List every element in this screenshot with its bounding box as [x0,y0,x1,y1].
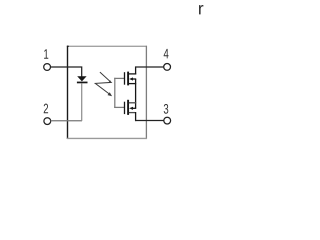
package outline box top edge [67,45,147,47]
pin label 3 [164,104,169,114]
pin 4 terminal [164,64,171,71]
gate lead Q1 [114,77,124,79]
pin 1 terminal [44,64,51,71]
MOSFET Q2 drain stub [129,112,135,114]
pin label 2 [44,104,48,114]
wire pin1 to LED anode [50,67,81,77]
MOSFET Q1 channel bar [127,72,129,86]
pin 2 terminal [44,118,51,125]
MOSFET Q1 gate bar [124,72,126,85]
Q1 drain riser to pin4 wire [135,67,137,75]
MOSFET Q2 body arrow [129,107,133,110]
Q2 drain riser to pin3 wire [135,112,137,121]
gate lead Q2 [114,106,124,108]
stray text fragment r (clipped at image edge) [199,5,203,14]
wire LED cathode down to pin2 wire [81,83,83,121]
zigzag end arrowhead [108,92,113,96]
LED cathode bar [77,82,88,84]
package outline box right edge [145,46,147,139]
MOSFET Q1 body arrow [129,77,133,80]
pin label 1 [44,49,48,58]
gate bus vertical [114,78,116,108]
package outline box left edge [67,46,69,139]
light emission zigzag arrow [95,72,111,95]
pin 3 terminal [164,117,171,124]
package outline box bottom edge [67,137,147,139]
wire Q1 drain to pin4 [135,66,164,68]
wire Q2 drain to pin3 [135,120,164,122]
MOSFET Q1 body lead [132,78,136,80]
zigzag mid arrowhead [109,80,112,83]
common source/body vertical [135,79,137,108]
MOSFET Q1 drain stub [129,73,136,75]
MOSFET Q2 source stub [129,102,136,104]
LED D1 emitter diode triangle [77,76,86,81]
MOSFET Q1 source stub [129,83,136,85]
MOSFET Q2 gate bar [124,102,126,114]
wire pin2 to LED cathode branch [51,120,82,122]
MOSFET Q2 channel bar [127,100,129,115]
pin label 4 [164,49,169,58]
MOSFET Q2 body lead [132,107,136,109]
